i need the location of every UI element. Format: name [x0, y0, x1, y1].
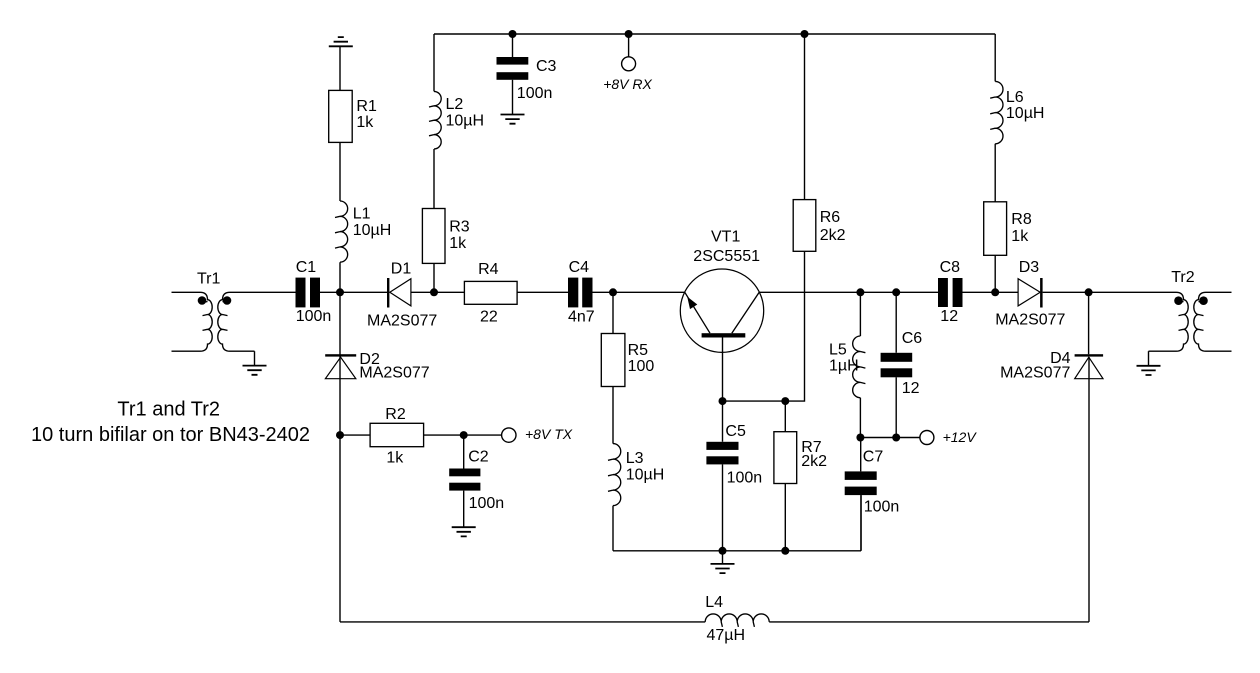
svg-text:1k: 1k [386, 449, 404, 466]
svg-text:MA2S077: MA2S077 [367, 313, 437, 330]
junction C3 top bus [509, 30, 517, 38]
svg-text:1k: 1k [1011, 228, 1029, 245]
svg-text:L3: L3 [626, 450, 644, 467]
svg-text:R5: R5 [628, 342, 649, 359]
junction dot R2 node [336, 431, 344, 439]
svg-text:R3: R3 [449, 218, 470, 235]
svg-text:C6: C6 [902, 330, 923, 347]
svg-text:C1: C1 [296, 259, 317, 276]
wire VT1 collector to C8 [759, 291, 938, 293]
capacitor C6 plates [881, 353, 913, 362]
svg-text:MA2S077: MA2S077 [995, 311, 1065, 328]
resistor R8 [984, 202, 1007, 256]
ground above R1 (inverted) [329, 37, 353, 46]
wire C4 to VT1 emitter [592, 291, 684, 293]
inductor L1 [335, 201, 348, 262]
terminal circle +8V TX [502, 428, 516, 442]
junction dot D4/main [1085, 288, 1093, 296]
ground under C2 [452, 527, 476, 536]
svg-text:C5: C5 [725, 423, 746, 440]
svg-text:Tr2: Tr2 [1171, 269, 1195, 286]
junction dot C4/R5 [609, 288, 617, 296]
svg-text:10µH: 10µH [353, 222, 392, 239]
junction dot R3/main [430, 288, 438, 296]
capacitor C5 plates [706, 442, 738, 450]
svg-text:12: 12 [940, 308, 958, 325]
capacitor C2 plates [449, 469, 480, 477]
svg-text:L6: L6 [1006, 89, 1024, 106]
transistor VT1 [680, 269, 763, 352]
terminal circle +12V [920, 431, 934, 445]
resistor R7 [774, 432, 797, 484]
svg-text:R2: R2 [385, 406, 406, 423]
svg-text:L2: L2 [446, 96, 464, 113]
svg-text:10µH: 10µH [446, 113, 485, 130]
junction dot R7 top [781, 397, 789, 405]
node A dot [336, 288, 344, 296]
Tr2 primary polarity dot [1174, 296, 1183, 305]
svg-text:1k: 1k [356, 114, 374, 131]
diode D1 triangle [390, 279, 411, 306]
wire L6/R8 column [994, 34, 996, 292]
svg-text:C3: C3 [536, 58, 557, 75]
junction dot R7 bottom [781, 547, 789, 555]
inductor L5 [853, 336, 866, 398]
capacitor C3 plates [497, 57, 529, 65]
svg-text:2k2: 2k2 [801, 453, 827, 470]
diode D3 triangle [1018, 279, 1040, 306]
wire +8V RX stem [628, 34, 630, 57]
capacitor C1 plates [296, 278, 306, 308]
wire L5 column [859, 292, 861, 437]
junction dot R8/main [991, 288, 999, 296]
svg-text:D3: D3 [1019, 259, 1040, 276]
wire ground rail mid [613, 495, 861, 551]
svg-text:1k: 1k [449, 235, 467, 252]
diode D4 cathode bar [1075, 354, 1104, 356]
diode D4 triangle [1075, 357, 1103, 379]
diode D1 cathode bar [387, 278, 389, 308]
capacitor C7 plates [845, 471, 877, 480]
wire R7 column [784, 401, 786, 551]
svg-text:47µH: 47µH [707, 627, 746, 644]
ground under C3 [501, 115, 525, 124]
svg-text:2SC5551: 2SC5551 [693, 248, 760, 265]
wire Tr1 ground stem [254, 351, 256, 365]
junction dot C5 bottom [719, 547, 727, 555]
svg-text:100n: 100n [864, 499, 900, 516]
svg-text:L5: L5 [829, 342, 847, 359]
svg-text:10µH: 10µH [626, 467, 665, 484]
Tr1 secondary polarity dot [223, 296, 232, 305]
junction R6 top bus [801, 30, 809, 38]
resistor R1 [329, 90, 353, 142]
wire emitter column R5/L3 [612, 292, 614, 551]
svg-text:100n: 100n [727, 470, 763, 487]
junction dot C6 bottom [892, 434, 900, 442]
resistor R3 [422, 209, 445, 264]
diode D2 cathode bar [325, 354, 356, 356]
resistor R6 [793, 200, 816, 252]
wire C8 to D3 [963, 291, 1019, 293]
resistor R4 [464, 281, 517, 304]
svg-text:L4: L4 [705, 594, 723, 611]
svg-text:12: 12 [902, 380, 920, 397]
junction +8V RX top bus [625, 30, 633, 38]
svg-text:Tr1 and Tr2: Tr1 and Tr2 [117, 398, 220, 420]
svg-text:4n7: 4n7 [568, 309, 595, 326]
wire Tr2 ground stem [1148, 351, 1150, 366]
resistor R2 [370, 423, 424, 446]
svg-text:100n: 100n [296, 308, 332, 325]
resistor R5 [601, 334, 625, 387]
capacitor C4 plates [568, 278, 578, 308]
junction dot C2 node [460, 431, 468, 439]
svg-text:L1: L1 [353, 205, 371, 222]
svg-text:1µH: 1µH [829, 358, 859, 375]
wire bottom rail with L4 [340, 621, 1089, 623]
junction dot L5 top [856, 288, 864, 296]
svg-text:R6: R6 [820, 209, 841, 226]
svg-text:R4: R4 [478, 261, 499, 278]
diode D3 cathode bar [1040, 278, 1043, 308]
svg-text:R8: R8 [1011, 211, 1032, 228]
svg-text:10µH: 10µH [1006, 105, 1045, 122]
svg-text:D1: D1 [391, 261, 412, 278]
wire D3 to Tr2 [1043, 291, 1089, 293]
Tr1 primary polarity dot [198, 296, 207, 305]
svg-text:R1: R1 [356, 98, 377, 115]
svg-text:MA2S077: MA2S077 [359, 364, 429, 381]
inductor L3 [608, 444, 621, 506]
inductor L6 [990, 81, 1003, 143]
svg-text:C8: C8 [940, 259, 961, 276]
wire R6 column [723, 34, 805, 401]
ground under Tr2 [1137, 366, 1161, 375]
svg-text:VT1: VT1 [711, 229, 740, 246]
transformer Tr1 left winding [172, 292, 213, 351]
transformer Tr1 right winding [218, 292, 296, 351]
svg-text:+8V TX: +8V TX [525, 426, 573, 442]
svg-text:100n: 100n [517, 85, 553, 102]
wire C2 stem [463, 435, 465, 527]
wire C6 column [895, 292, 897, 437]
svg-text:Tr1: Tr1 [197, 270, 221, 287]
inductor L2 [429, 91, 441, 149]
junction dot L5 bottom [856, 434, 864, 442]
svg-text:22: 22 [480, 309, 498, 326]
wire node A up through L1 to R1 [339, 46, 341, 292]
wire node A column through D2 down to bottom rail [339, 292, 341, 622]
wire C3 stem [512, 34, 514, 114]
wire R4 to C4 [517, 291, 568, 293]
wire R2 row [340, 434, 502, 436]
svg-text:+8V RX: +8V RX [603, 76, 652, 92]
wire D4 column [1088, 292, 1090, 622]
junction dot base/C5 [719, 397, 727, 405]
wire L2/R3 column [433, 34, 435, 292]
wire C5 ground stem [722, 551, 724, 564]
svg-text:100: 100 [628, 358, 655, 375]
svg-text:C7: C7 [863, 449, 884, 466]
wire +12V row [860, 437, 920, 439]
svg-text:MA2S077: MA2S077 [1000, 365, 1070, 382]
terminal circle +8V RX [622, 57, 636, 71]
ground under Tr1 [243, 366, 267, 375]
wire C1 to D1 [320, 291, 387, 293]
svg-text:100n: 100n [469, 495, 505, 512]
svg-text:C4: C4 [569, 259, 590, 276]
diode D2 triangle [325, 357, 355, 379]
wire C7 stem [860, 438, 862, 551]
wire top supply bus [434, 33, 995, 35]
capacitor C8 plates [938, 278, 948, 307]
ground under C5 [711, 564, 735, 573]
svg-text:+12V: +12V [943, 429, 978, 445]
svg-text:C2: C2 [468, 448, 489, 465]
svg-text:10 turn bifilar on tor BN43-24: 10 turn bifilar on tor BN43-2402 [31, 424, 310, 446]
Tr2 secondary polarity dot [1199, 296, 1208, 305]
transformer Tr2 right winding [1194, 292, 1232, 351]
junction dot C6 top [892, 288, 900, 296]
wire base column through C5 [722, 337, 724, 550]
svg-text:2k2: 2k2 [820, 227, 846, 244]
inductor L4 [705, 614, 769, 627]
wire D1 to R4 [411, 291, 465, 293]
transformer Tr2 left winding [1089, 292, 1189, 351]
